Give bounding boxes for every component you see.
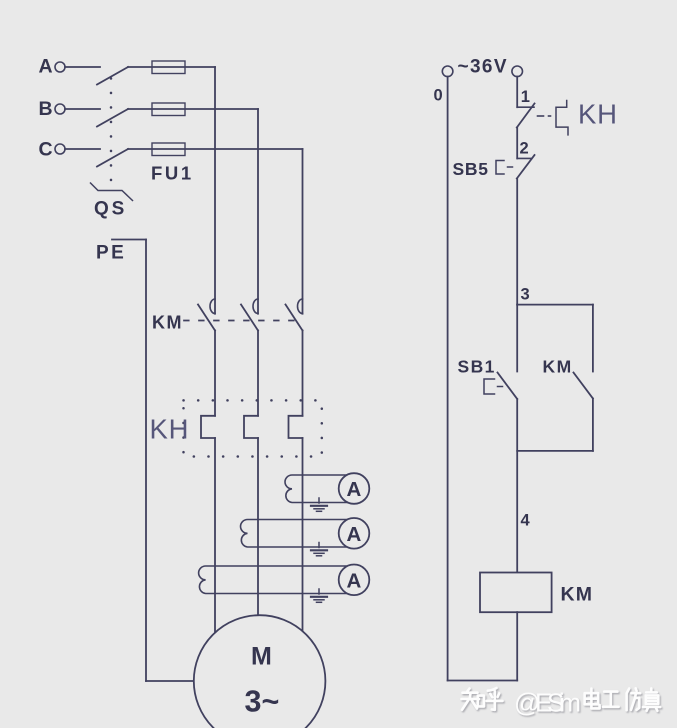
svg-text:@ESim: @ESim <box>514 688 581 718</box>
svg-text:KM: KM <box>152 313 183 333</box>
current transformer CT phase B loop <box>241 520 348 548</box>
thermal relay KH heater phase A <box>201 416 215 438</box>
wire KM aux upper terminal <box>592 305 594 372</box>
contactor coil KM rectangle <box>480 573 552 613</box>
ammeter A3 circle <box>339 565 370 596</box>
svg-text:KM: KM <box>561 584 594 606</box>
wire phase B heater to motor <box>257 438 259 616</box>
wire phase A below contactor <box>214 331 216 416</box>
thermal relay KH actuator symbol <box>556 101 568 135</box>
contactor KM main contact pole 1 blade <box>198 305 215 331</box>
svg-text:A: A <box>347 569 362 592</box>
ground CT phase A <box>311 589 327 602</box>
thermal relay KH NC contact blade <box>517 104 535 128</box>
svg-text:1: 1 <box>521 88 530 106</box>
wire node 4 segment <box>516 399 518 573</box>
ammeter A1 circle <box>339 473 370 504</box>
svg-text:3: 3 <box>521 286 530 304</box>
pushbutton SB5 actuator <box>496 161 504 175</box>
pushbutton SB1 actuator <box>484 379 495 394</box>
thermal relay KH dash-dot link <box>538 115 551 117</box>
svg-text:PE: PE <box>96 243 126 264</box>
node C terminal circle <box>55 144 65 154</box>
svg-text:SB5: SB5 <box>453 159 489 179</box>
wire phase C vertical drop <box>302 149 304 314</box>
ground CT phase C <box>311 498 327 511</box>
watermark char dian <box>585 689 600 709</box>
watermark char zhi <box>462 689 480 710</box>
node B terminal circle <box>55 104 65 114</box>
svg-text:SB1: SB1 <box>458 356 496 376</box>
wire control left rail <box>447 77 449 681</box>
svg-text:~36V: ~36V <box>458 57 507 78</box>
motor M circle <box>194 615 326 728</box>
wire phase A from terminal to switch <box>65 66 100 68</box>
contactor KM main contact pole 3 hook <box>298 299 303 314</box>
svg-text:A: A <box>39 56 53 78</box>
current transformer CT phase A loop <box>199 566 348 594</box>
contactor KM main contact pole 3 blade <box>286 305 303 331</box>
watermark char hu <box>487 688 503 710</box>
contactor KM main contact pole 1 hook <box>210 299 215 314</box>
wire phase C from switch to corner <box>128 148 303 150</box>
control supply right terminal circle <box>512 66 523 77</box>
wire PE vertical down <box>145 240 147 682</box>
pushbutton SB5 blade <box>517 155 535 179</box>
switch QS blade phase C <box>97 149 128 167</box>
svg-text:A: A <box>347 523 362 546</box>
wire SB1 upper terminal <box>516 305 518 372</box>
wire phase B from switch to corner <box>128 108 258 110</box>
thermal relay KH heater phase C <box>289 416 303 438</box>
svg-text:C: C <box>39 139 53 161</box>
switch QS blade phase B <box>97 109 128 127</box>
wire phase A heater to motor <box>214 438 216 633</box>
thermal relay KH dotted enclosure <box>184 400 322 456</box>
wire phase C heater to motor <box>302 438 304 631</box>
svg-text:3~: 3~ <box>245 685 280 719</box>
node A terminal circle <box>55 62 65 72</box>
fuse FU1 phase A <box>152 61 185 74</box>
thermal relay KH heater phase B <box>244 416 258 438</box>
wire node 3 segment <box>516 179 518 305</box>
switch QS handle <box>91 183 133 201</box>
svg-text:2: 2 <box>520 140 529 158</box>
svg-text:A: A <box>347 478 362 501</box>
wire control bottom return <box>448 680 518 682</box>
pushbutton SB5 dash link <box>508 166 513 168</box>
control supply left terminal circle <box>442 66 453 77</box>
svg-text:QS: QS <box>94 199 127 220</box>
pushbutton SB1 blade <box>498 373 518 400</box>
contactor KM gang dashed link <box>184 320 298 322</box>
svg-text:FU1: FU1 <box>151 163 194 184</box>
wire PE to motor <box>146 680 195 682</box>
pushbutton SB1 dash link <box>498 386 503 388</box>
contactor KM main contact pole 2 blade <box>241 305 258 331</box>
wire coil to bottom <box>516 612 518 680</box>
switch QS gang dotted link <box>110 78 113 182</box>
wire KM aux lower terminal <box>592 399 594 451</box>
wire PE horizontal stub <box>112 239 146 241</box>
wire phase A from switch to corner <box>128 66 215 68</box>
svg-text:KH: KH <box>578 99 618 130</box>
wire phase C below contactor <box>302 331 304 416</box>
wire parallel branch top <box>517 304 593 306</box>
ammeter A2 circle <box>339 518 370 549</box>
switch QS blade phase A <box>97 67 128 85</box>
fuse FU1 phase B <box>152 103 185 116</box>
watermark char gong <box>603 692 619 707</box>
svg-text:4: 4 <box>521 512 531 530</box>
wire node 2 segment <box>516 128 518 159</box>
wire phase B below contactor <box>257 331 259 416</box>
svg-text:KH: KH <box>150 414 190 445</box>
watermark char fang <box>627 688 641 710</box>
svg-text:0: 0 <box>434 87 443 105</box>
wire phase B vertical drop <box>257 109 259 314</box>
wire control right rail top <box>516 77 518 108</box>
wire phase A vertical drop <box>214 67 216 314</box>
contactor KM aux contact blade <box>574 373 593 399</box>
pushbutton SB5 fixed bar <box>517 157 531 159</box>
wire phase C from terminal to switch <box>65 148 100 150</box>
ground CT phase B <box>311 543 327 556</box>
current transformer CT phase C loop <box>285 475 348 503</box>
svg-text:M: M <box>251 643 272 671</box>
thermal relay KH NC contact fixed bar <box>517 106 534 108</box>
watermark char zhen <box>643 688 660 710</box>
fuse FU1 phase C <box>152 143 185 156</box>
wire phase B from terminal to switch <box>65 108 100 110</box>
svg-text:KM: KM <box>543 356 573 376</box>
wire parallel branch bottom <box>517 450 593 452</box>
contactor KM main contact pole 2 hook <box>253 299 258 314</box>
svg-text:B: B <box>39 98 53 120</box>
